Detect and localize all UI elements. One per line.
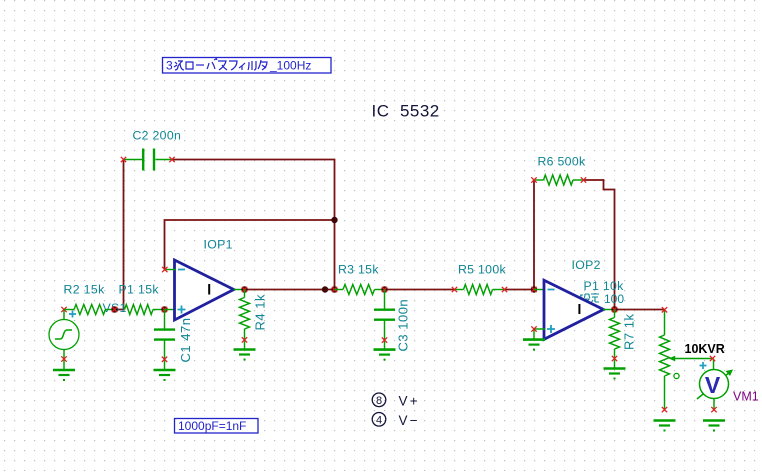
svg-text:4: 4 bbox=[376, 415, 382, 427]
wire IOP2 output lead bbox=[603, 309, 615, 311]
capacitor C3 value 100n bbox=[374, 290, 411, 352]
svg-text:R2 15k: R2 15k bbox=[64, 283, 106, 297]
node I junction IOP2 out/R7/pot bbox=[611, 306, 617, 312]
svg-text:VM1: VM1 bbox=[733, 390, 759, 404]
svg-text:IOP1: IOP1 bbox=[204, 238, 233, 252]
svg-text:P1 15k: P1 15k bbox=[119, 283, 160, 297]
capacitor C1 value 47n bbox=[154, 310, 193, 370]
svg-text:V: V bbox=[705, 372, 721, 398]
svg-text:R7 1k: R7 1k bbox=[622, 314, 637, 350]
ground C3 bbox=[374, 350, 396, 361]
wire IOP1 output to R3 bbox=[245, 289, 335, 291]
voltage source VS1 bbox=[49, 301, 127, 370]
svg-text:C1 47n: C1 47n bbox=[178, 318, 193, 363]
resistor P1 value 15k bbox=[119, 283, 165, 315]
pin C2 right bbox=[169, 157, 174, 162]
wire R3 to R5 (through C3 node) bbox=[385, 289, 455, 291]
pin R6 right bbox=[581, 177, 586, 182]
node A junction R2/P1/C2 bbox=[111, 306, 117, 312]
resistor R4 value 1k bbox=[240, 290, 268, 349]
op-amp IOP1 bbox=[175, 238, 234, 321]
svg-text:3: 3 bbox=[166, 59, 173, 73]
wire C2 left to node A (vertical) bbox=[115, 160, 124, 310]
pin VM1 top bbox=[710, 356, 715, 361]
node F feedback tee bbox=[331, 217, 337, 223]
svg-text:IOP2: IOP2 bbox=[572, 258, 601, 272]
annotation power pin 4 V- bbox=[372, 413, 420, 429]
svg-text:C2 200n: C2 200n bbox=[133, 129, 182, 143]
resistor R3 value 15k bbox=[335, 263, 385, 295]
ground 10KVR bbox=[654, 421, 676, 432]
wire node H to IOP2 - input bbox=[534, 289, 545, 291]
svg-text:IC 5532: IC 5532 bbox=[372, 102, 440, 121]
svg-text:C3 100n: C3 100n bbox=[396, 299, 411, 352]
resistor R6 value 500k bbox=[534, 155, 586, 186]
ground R7 bbox=[604, 369, 626, 380]
svg-text:_100Hz: _100Hz bbox=[269, 59, 311, 73]
svg-text:100: 100 bbox=[604, 292, 624, 306]
pin IOP2 non-inverting input bbox=[531, 326, 536, 331]
resistor R5 value 100k bbox=[455, 263, 507, 295]
pin 10KVR top bbox=[662, 307, 667, 312]
capacitor C2 value 200n bbox=[124, 129, 182, 171]
svg-text:R3 15k: R3 15k bbox=[338, 263, 379, 277]
svg-text:8: 8 bbox=[376, 395, 382, 407]
svg-text:R6 500k: R6 500k bbox=[538, 155, 586, 169]
wire IOP2 output to potentiometer top bbox=[615, 309, 665, 311]
wire IOP1 - input lead bbox=[165, 269, 176, 271]
svg-text:V−: V− bbox=[399, 413, 420, 428]
annotation box 1000pF=1nF bbox=[175, 419, 259, 434]
ground IOP2 + input bbox=[523, 340, 545, 351]
wire IOP2 + input to ground bbox=[534, 329, 546, 339]
wire R6 right down to IOP2 output node bbox=[584, 180, 615, 310]
op-amp IOP2 bbox=[544, 258, 624, 339]
svg-text:10KVR: 10KVR bbox=[685, 342, 725, 356]
node C junction IOP1 out/R4 bbox=[241, 286, 247, 292]
node D wire joint bbox=[322, 286, 328, 292]
resistor R2 value 15k bbox=[64, 283, 115, 315]
pin R4 bottom bbox=[242, 337, 247, 342]
node G junction R3/C3/R5 bbox=[381, 286, 387, 292]
wire R5 to IOP2 inverting node bbox=[505, 289, 535, 291]
wire IOP1 inverting feedback horizontal bbox=[165, 220, 335, 270]
resistor R7 value 1k bbox=[610, 310, 637, 369]
pin VS1 top bbox=[61, 307, 66, 312]
wire IOP1 output lead bbox=[234, 289, 245, 291]
wire C2 right to IOP1 output column bbox=[172, 160, 335, 290]
node E junction C2 column/R3 left bbox=[331, 286, 337, 292]
pin R5 left bbox=[452, 287, 457, 292]
pin C1 bottom bbox=[162, 357, 167, 362]
ground VS1 bbox=[53, 370, 75, 381]
pin R5 right bbox=[502, 287, 507, 292]
potentiometer 10KVR bbox=[660, 310, 725, 410]
pin R7 bottom bbox=[612, 356, 617, 361]
pin VS1 bottom bbox=[61, 356, 66, 361]
pin C3 bottom bbox=[382, 337, 387, 342]
annotation text IC 5532 bbox=[372, 102, 440, 121]
pin R6 left bbox=[531, 177, 536, 182]
svg-text:1000pF=1nF: 1000pF=1nF bbox=[178, 419, 246, 433]
ground R4 bbox=[234, 350, 256, 361]
wire IOP2 inverting node up to R6 left bbox=[533, 180, 535, 290]
svg-text:R5 100k: R5 100k bbox=[458, 263, 506, 277]
pin IOP1 inverting input bbox=[162, 267, 167, 272]
annotation title box: 3-ji low-pass-filter 100Hz bbox=[163, 58, 332, 74]
ground VM1 bbox=[703, 421, 725, 432]
pin 10KVR bottom bbox=[662, 407, 667, 412]
annotation power pin 8 V+ bbox=[372, 393, 420, 409]
node H junction R5/R6/IOP2- bbox=[531, 286, 537, 292]
pin VM1 bottom bbox=[711, 407, 716, 412]
svg-text:P1 10k: P1 10k bbox=[584, 279, 625, 293]
svg-text:R4 1k: R4 1k bbox=[253, 294, 268, 330]
pin C2 left bbox=[121, 157, 126, 162]
svg-text:V+: V+ bbox=[399, 394, 420, 409]
ground C1 bbox=[154, 370, 176, 381]
wire node B to IOP1 + input bbox=[165, 309, 176, 311]
voltmeter VM1 bbox=[697, 359, 759, 410]
node B junction P1/C1/IOP1+ bbox=[161, 306, 167, 312]
